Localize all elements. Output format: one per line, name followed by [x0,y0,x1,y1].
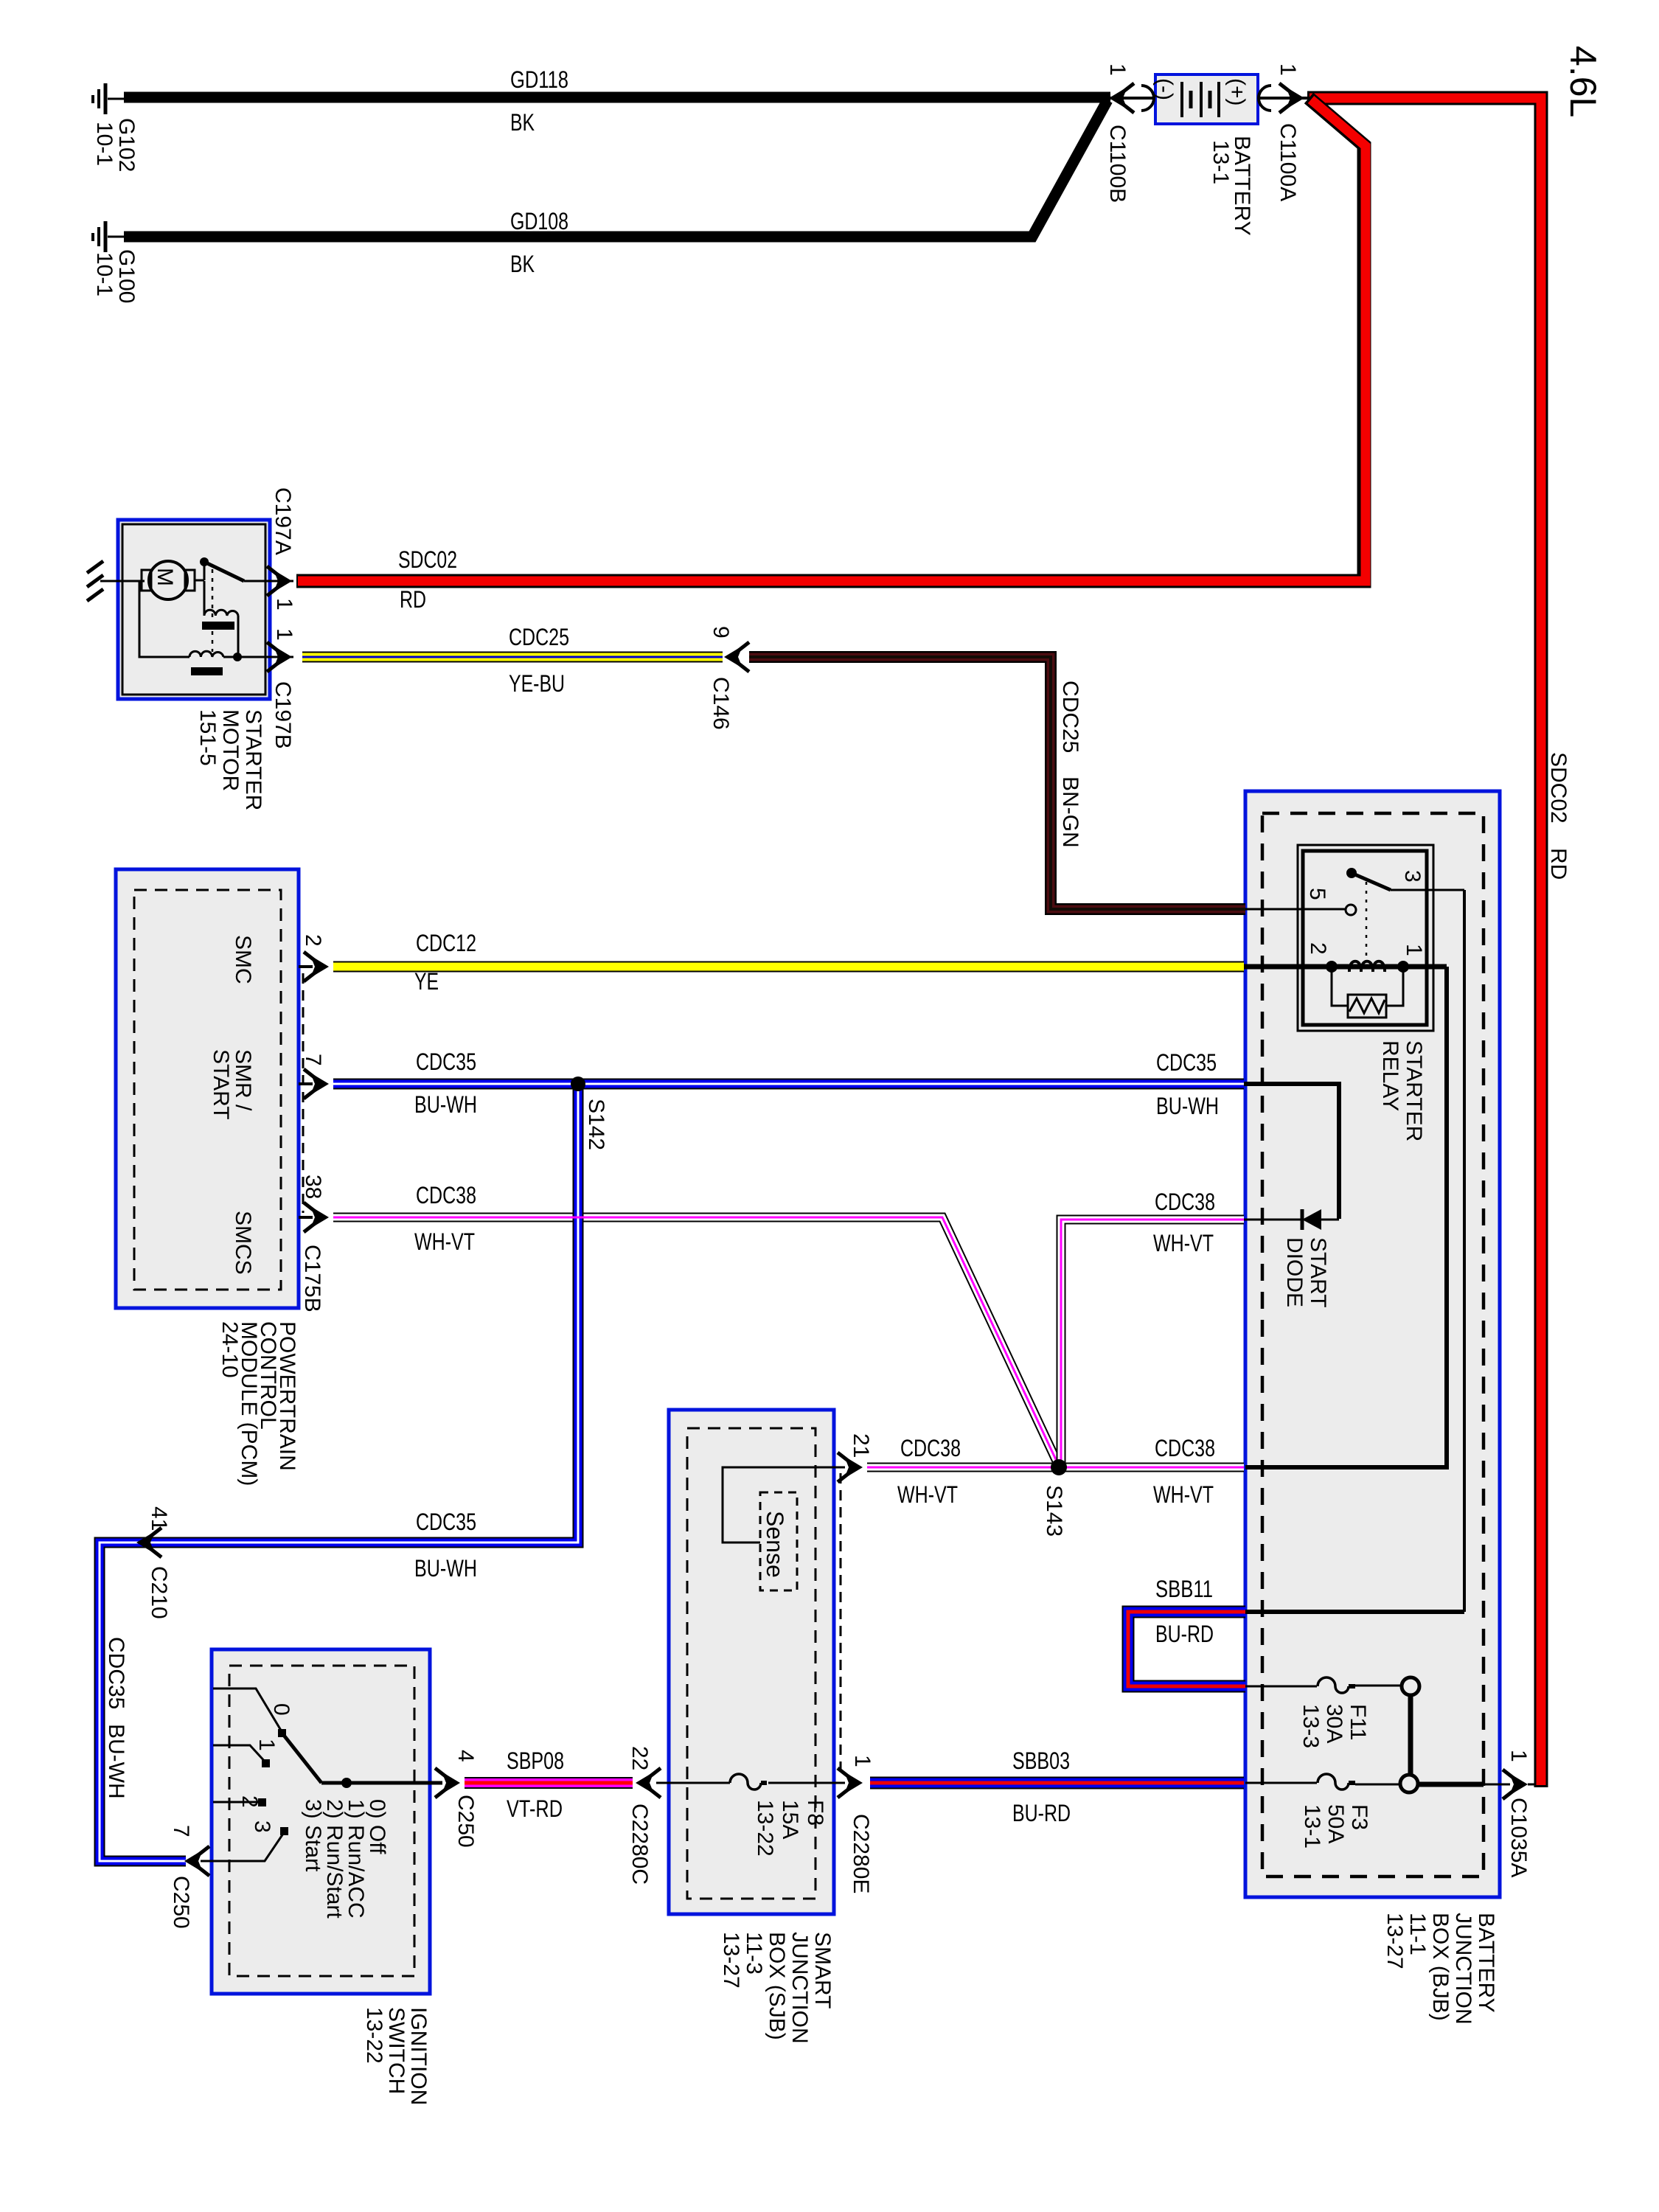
svg-text:30A: 30A [1322,1704,1346,1743]
connector C250 pin 4 arrow [435,1768,460,1798]
svg-text:1: 1 [1506,1750,1531,1762]
label pin 9 C146 [709,626,733,730]
svg-text:SBB11: SBB11 [1155,1576,1213,1602]
svg-text:3) Start: 3) Start [301,1799,325,1872]
starter relay contact and blade [1346,868,1464,890]
svg-text:1: 1 [850,1755,874,1767]
svg-text:10-1: 10-1 [92,252,116,296]
label START DIODE [1282,1237,1330,1308]
svg-text:START: START [209,1049,233,1120]
label S142 [584,1099,608,1150]
label ignition positions 0 1 2 3 [237,1703,293,1833]
svg-text:C250: C250 [453,1795,478,1848]
svg-text:BU-RD: BU-RD [1155,1621,1214,1647]
connector C2280C arrow [636,1768,661,1798]
wire CDC38 WH-VT splice S143 right to BJB relay pin 1 [1057,1463,1244,1472]
svg-text:13-22: 13-22 [362,2007,386,2064]
svg-text:BU-WH: BU-WH [414,1091,477,1118]
wire SBB11 BU-RD BJB loop to fuse F11 [1128,1612,1245,1686]
BJB fuse F11 30A [1245,1677,1419,1695]
svg-text:BOX (BJB): BOX (BJB) [1428,1913,1453,2021]
svg-text:G100: G100 [114,249,139,303]
powertrain control module (PCM) box [116,869,299,1308]
label pin 1 C1035A [1506,1750,1531,1877]
wire CDC38 WH-VT splice S143 up and right to BJB start diode [1061,1220,1244,1467]
chassis ground at starter motor [87,561,145,601]
label POWERTRAIN CONTROL MODULE (PCM) 24-10 [218,1321,299,1486]
label F3 50A 13-1 [1300,1804,1371,1848]
motor M of starter motor [142,561,195,599]
label CDC25 YE-BU [509,624,569,697]
wire SDC02 RD battery down-left to starter motor C197A [296,98,1366,581]
SJB pin 21 stub [834,1453,863,1482]
label CDC38 WH-VT lower right [1153,1435,1215,1508]
svg-text:41: 41 [147,1506,171,1531]
svg-text:F8: F8 [803,1800,827,1826]
label SBB03 BU-RD [1012,1747,1071,1826]
SJB fuse F8 15A [656,1774,834,1790]
label relay pin 1 [1402,944,1426,956]
label SDC02 RD left [398,546,457,613]
svg-text:3: 3 [1400,870,1425,883]
label SMR/START [209,1049,255,1120]
label CDC38 WH-VT at PCM [414,1182,476,1255]
svg-text:1: 1 [1276,63,1300,76]
svg-text:1: 1 [1105,63,1130,76]
svg-text:SDC02: SDC02 [398,546,457,573]
svg-text:DIODE: DIODE [1282,1237,1307,1307]
svg-text:GD118: GD118 [510,66,568,93]
label pin 1 C1100B [1105,63,1130,203]
svg-text:1: 1 [254,1739,279,1751]
starter solenoid pull-in winding [202,581,238,657]
svg-text:13-22: 13-22 [753,1800,777,1857]
label BATTERY JUNCTION BOX (BJB) 11-1 13-27 [1382,1913,1498,2025]
starter relay box [1298,845,1433,1031]
svg-text:15A: 15A [778,1800,802,1839]
svg-text:13-3: 13-3 [1298,1704,1323,1748]
label STARTER RELAY [1378,1040,1426,1141]
svg-text:C175B: C175B [300,1245,324,1312]
PCM connector C175B dashed bus [302,973,305,1213]
svg-text:10-1: 10-1 [92,122,116,166]
label battery terminals [1152,78,1249,106]
svg-text:4: 4 [453,1750,478,1762]
wire SBB03 BU-RD SJB pin 1 to BJB fuse F3 [870,1777,1244,1790]
wire CDC35 BU-WH from splice S142 down, left to C210, down and right to ignition C250 [100,1084,578,1861]
svg-text:CDC38: CDC38 [900,1435,961,1461]
svg-text:SMCS: SMCS [231,1211,255,1275]
svg-text:C250: C250 [169,1876,193,1929]
svg-text:Sense: Sense [762,1511,788,1578]
svg-text:11-3: 11-3 [742,1932,766,1975]
svg-text:M: M [153,568,177,586]
ignition switch contact 2 [213,1798,266,1806]
PCM pin 2 stub [299,952,329,981]
BJB fuse F3 50A [1245,1774,1418,1792]
svg-text:C210: C210 [147,1566,171,1619]
connector C1100B arrow [1109,83,1154,113]
label S143 [1042,1485,1066,1537]
label relay pin 3 [1400,870,1425,883]
wire CDC12 YE PCM pin 2 to BJB [333,961,1244,973]
svg-text:SMR /: SMR / [231,1049,255,1111]
svg-text:22: 22 [627,1746,652,1770]
label G102 10-1 [92,118,139,172]
svg-text:CDC25: CDC25 [1058,681,1082,753]
SJB pin 1 arrow [834,1768,863,1798]
connector C210 arrow [136,1528,161,1557]
svg-text:13-27: 13-27 [1382,1913,1407,1969]
svg-text:WH-VT: WH-VT [897,1481,958,1508]
svg-text:1: 1 [1402,944,1426,956]
svg-text:RD: RD [400,586,426,613]
ignition switch contact 3 [201,1827,288,1861]
svg-text:151-5: 151-5 [195,709,220,766]
svg-text:13-27: 13-27 [719,1932,743,1989]
wire CDC38 WH-VT SJB pin 21 to splice S143 [867,1463,1057,1472]
label PCM pin 38 [301,1175,325,1199]
svg-text:BATTERY: BATTERY [1474,1913,1498,2013]
label SMCS [231,1211,255,1275]
starter relay coil [1326,961,1409,973]
label CDC35 BU-WH vertical left [104,1637,128,1799]
ignition switch contact 1 [213,1745,270,1767]
svg-text:JUNCTION: JUNCTION [1451,1913,1475,2025]
svg-text:CDC25: CDC25 [509,624,569,650]
svg-text:C1100B: C1100B [1105,125,1130,203]
label SBB11 BU-RD [1155,1576,1214,1647]
svg-text:BU-WH: BU-WH [414,1555,477,1582]
starter relay resistor [1332,967,1403,1018]
svg-text:2: 2 [1306,942,1330,955]
ground G102 [93,83,125,114]
splice S143 [1051,1459,1067,1475]
svg-text:5: 5 [1305,888,1329,900]
label G100 10-1 [92,249,139,303]
start diode [1244,1209,1339,1230]
starter relay plunger dashed [1366,882,1368,962]
label C197A pin 1 [271,487,296,611]
wire CDC38 WH-VT PCM pin 38 with diagonal to splice S143 [333,1217,1059,1466]
label CDC12 YE [414,930,476,995]
svg-text:YE: YE [414,968,439,995]
svg-text:SBP08: SBP08 [507,1747,564,1774]
wire SBP08 VT-RD ignition switch to C2280C [465,1777,633,1789]
svg-text:WH-VT: WH-VT [1153,1481,1214,1508]
svg-text:13-1: 13-1 [1208,140,1233,184]
ignition switch box [212,1649,430,1994]
svg-text:4.6L: 4.6L [1562,46,1604,117]
svg-text:C1100A: C1100A [1276,123,1300,201]
wire CDC25 YE-BU starter motor to C146 [302,652,723,663]
SJB sense line [723,1467,834,1543]
label CDC25 BN-GN vertical [1058,681,1082,848]
connector C1100A arrow [1259,83,1304,113]
label GD108 BK [510,208,568,277]
label SBP08 VT-RD [507,1747,564,1822]
wire CDC25 BN-GN C146 to starter relay pin 5 [749,657,1245,909]
svg-text:21: 21 [849,1433,873,1458]
svg-text:BK: BK [510,251,535,277]
connector C250 pin 7 arrow [184,1846,209,1876]
connector C1035A arrow [1503,1770,1535,1799]
label PCM pin 2 [301,934,325,947]
smart junction box (SJB) [669,1410,834,1914]
label pin 22 C2280C [627,1746,652,1885]
svg-text:C197A: C197A [271,487,295,555]
battery junction box (BJB) [1245,791,1500,1897]
label GD118 BK [510,66,568,136]
label relay pin 5 [1305,888,1329,900]
ignition switch contact 0 [213,1688,286,1737]
svg-text:50A: 50A [1324,1804,1348,1843]
label SMART JUNCTION BOX (SJB) 11-3 13-27 [719,1932,835,2044]
svg-text:F11: F11 [1346,1704,1370,1740]
BJB output to C1035A [1417,1782,1510,1787]
svg-text:CDC38: CDC38 [1155,1435,1215,1461]
label relay pin 2 [1306,942,1330,955]
wire crossing CDC35 over CDC38 at x784 [572,1209,585,1226]
svg-text:GD108: GD108 [510,208,568,234]
battery box [1155,74,1258,124]
starter solenoid hold-in winding [139,581,293,675]
svg-text:VT-RD: VT-RD [507,1795,563,1822]
svg-text:RELAY: RELAY [1378,1040,1402,1111]
svg-text:CDC35: CDC35 [104,1637,128,1709]
starter solenoid contact [195,557,293,581]
svg-text:C197B: C197B [271,681,295,749]
svg-text:1: 1 [272,598,296,611]
svg-text:2: 2 [237,1795,262,1808]
svg-text:7: 7 [301,1054,325,1066]
label pin 4 C250 [453,1750,478,1848]
svg-text:S142: S142 [584,1099,608,1150]
svg-text:SMC: SMC [231,935,255,984]
PCM pin 7 stub [299,1069,329,1099]
svg-text:13-1: 13-1 [1300,1804,1324,1848]
label pin 7 C250 [169,1825,193,1929]
svg-text:BU-RD: BU-RD [1012,1800,1071,1826]
svg-text:G102: G102 [114,118,139,172]
svg-text:JUNCTION: JUNCTION [787,1932,812,2044]
svg-text:C2280E: C2280E [849,1814,873,1893]
label BATTERY 13-1 [1208,136,1254,236]
svg-text:C146: C146 [709,677,733,730]
svg-text:(-): (-) [1152,78,1177,100]
label CDC38 WH-VT upper right [1153,1189,1215,1256]
label ignition legend [301,1799,389,1919]
label C175B [300,1245,324,1312]
BJB relay pin 3 drop to SBB11 [1245,890,1464,1612]
svg-text:C2280C: C2280C [627,1804,652,1885]
svg-text:(+): (+) [1225,78,1249,106]
svg-text:WH-VT: WH-VT [414,1228,475,1255]
wire GD118 BK [124,92,1110,103]
svg-text:2: 2 [301,934,325,947]
svg-text:IGNITION: IGNITION [406,2007,431,2105]
svg-text:CDC38: CDC38 [416,1182,476,1208]
label IGNITION SWITCH 13-22 [362,2007,431,2105]
svg-text:START: START [1306,1237,1330,1308]
svg-text:SBB03: SBB03 [1012,1747,1070,1774]
ground G100 [93,221,125,252]
label STARTER MOTOR 151-5 [195,709,265,810]
svg-text:0: 0 [269,1703,293,1716]
svg-text:BOX (SJB): BOX (SJB) [765,1932,789,2040]
svg-text:CDC35: CDC35 [416,1048,476,1075]
svg-text:3: 3 [250,1820,274,1833]
starter motor box [118,520,270,699]
svg-text:SDC02: SDC02 [1546,752,1571,824]
label CDC35 BU-WH at BJB [1156,1049,1219,1119]
svg-text:24-10: 24-10 [218,1321,242,1378]
label 4.6L [1562,46,1604,117]
label SJB pin 21 [849,1433,873,1458]
battery stub right [1258,97,1311,100]
svg-text:38: 38 [301,1175,325,1199]
svg-text:BU-WH: BU-WH [104,1724,128,1799]
svg-text:7: 7 [169,1825,193,1837]
label CDC38 WH-VT at SJB pin 21 [897,1435,961,1508]
starter relay coil feed from CDC12 [1244,964,1447,970]
svg-text:11-1: 11-1 [1405,1913,1430,1955]
ignition switch rotor blade [282,1733,442,1788]
svg-text:SMART: SMART [810,1932,835,2008]
label PCM pin 7 [301,1054,325,1066]
svg-text:SWITCH: SWITCH [384,2007,408,2094]
label CDC35 BU-WH left horizontal [414,1509,477,1582]
label C197B pin 1 [271,628,296,749]
svg-text:STARTER: STARTER [1402,1040,1426,1141]
svg-text:CDC35: CDC35 [416,1509,476,1535]
label SDC02 RD vertical [1546,752,1571,880]
wire GD108 BK [124,100,1107,237]
SJB sense dashed box [760,1492,797,1590]
svg-text:BU-WH: BU-WH [1156,1093,1219,1119]
label F8 15A 13-22 [753,1800,827,1857]
svg-text:9: 9 [709,626,733,639]
svg-text:1: 1 [272,628,296,641]
svg-text:WH-VT: WH-VT [1153,1230,1214,1256]
svg-text:BN-GN: BN-GN [1058,776,1082,848]
starter solenoid plunger dashed link [212,569,214,652]
label F11 30A 13-3 [1298,1704,1370,1748]
svg-text:CDC12: CDC12 [416,930,476,956]
svg-text:S143: S143 [1042,1485,1066,1537]
PCM pin 38 stub [299,1203,329,1232]
battery stub left [1102,97,1155,100]
label pin 41 C210 [147,1506,171,1619]
connector C197B arrow [267,642,292,672]
svg-text:RD: RD [1546,848,1571,880]
BJB CDC35 feed to start diode [1244,1084,1339,1219]
starter relay pin 5 contact [1245,905,1356,915]
svg-text:CDC38: CDC38 [1155,1189,1215,1215]
wire CDC35 BU-WH PCM pin 7 to BJB [333,1079,1244,1090]
SJB connector C2280E dashed bus [840,1473,842,1777]
svg-text:CDC35: CDC35 [1156,1049,1217,1076]
svg-text:STARTER: STARTER [241,709,265,810]
label pin 1 C2280E [849,1755,874,1893]
wire SDC02 RD battery to right edge and down to C1035A [1307,98,1541,1787]
battery cells symbol [1182,82,1219,117]
label pin 1 C1100A [1276,63,1300,201]
svg-text:C1035A: C1035A [1506,1798,1531,1877]
svg-text:BK: BK [510,109,535,136]
label Sense [762,1511,788,1578]
BJB relay pin 1 drop to CDC38 [1245,967,1447,1467]
svg-text:YE-BU: YE-BU [509,670,565,697]
connector C146 arrow [724,642,749,672]
label CDC35 BU-WH at PCM [414,1048,477,1118]
svg-text:F3: F3 [1347,1804,1371,1830]
label SMC [231,935,255,984]
svg-text:MOTOR: MOTOR [218,709,243,791]
BJB bus F11 to F3 [1408,1694,1413,1776]
connector C197A arrow [267,566,292,596]
splice S142 [571,1077,585,1091]
